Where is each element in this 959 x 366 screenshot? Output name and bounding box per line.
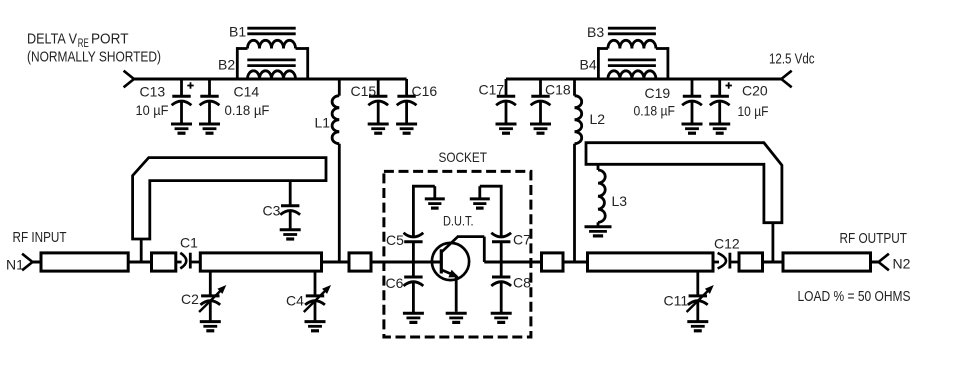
ground C8 [491, 313, 512, 322]
label N2 [893, 256, 911, 272]
ground C11 [687, 322, 708, 331]
label RF INPUT [13, 229, 67, 246]
svg-text:C2: C2 [181, 291, 199, 307]
wire TL2 to box4 (L1 junction) [322, 261, 350, 264]
svg-text:C4: C4 [286, 293, 304, 309]
ground C3 [280, 230, 301, 239]
inductor L3 [598, 164, 627, 225]
capacitor C16 [397, 79, 438, 124]
svg-text:N2: N2 [893, 256, 911, 272]
capacitor C13 10uF [136, 79, 194, 124]
svg-text:C13: C13 [140, 84, 166, 100]
capacitor C17 [479, 79, 516, 124]
transmission line element box7 [739, 253, 763, 271]
wire DUT collector to right [458, 237, 542, 262]
transmission line element box4 [349, 253, 371, 271]
svg-text:L3: L3 [612, 193, 628, 209]
capacitor C7 [491, 232, 531, 263]
svg-text:12.5 Vdc: 12.5 Vdc [769, 51, 815, 68]
label SOCKET [439, 149, 488, 165]
wire top-right bus [506, 78, 781, 81]
capacitor C3 [263, 181, 301, 230]
ground C13 [171, 124, 192, 133]
svg-text:10 µF: 10 µF [738, 103, 769, 119]
inductor L2 [575, 79, 606, 262]
svg-text:RF INPUT: RF INPUT [13, 229, 67, 246]
capacitor C5 [386, 232, 423, 262]
ground socket top-left [425, 199, 445, 208]
socket dashed outline [384, 171, 531, 337]
svg-text:(NORMALLY SHORTED): (NORMALLY SHORTED) [27, 49, 161, 66]
svg-text:C17: C17 [479, 82, 505, 98]
wire TL1 to box2 (junction stub) [128, 261, 151, 264]
svg-text:PORT: PORT [91, 31, 129, 48]
label D.U.T. [443, 213, 474, 229]
ferrite bead B1 [229, 24, 308, 80]
variable capacitor C4 [286, 271, 331, 322]
transmission line element box2 [152, 253, 176, 271]
wire box7 to TL4 (strip junction) [763, 261, 784, 264]
svg-text:10 µF: 10 µF [136, 102, 169, 118]
svg-text:C18: C18 [545, 82, 571, 98]
ground DUT emitter [446, 313, 467, 322]
ground C16 [396, 124, 417, 133]
svg-text:C19: C19 [645, 85, 671, 101]
capacitor C20 10uF [710, 79, 769, 124]
ground C14 [199, 124, 220, 133]
inductor L1 [315, 79, 340, 262]
svg-text:B1: B1 [229, 24, 246, 40]
svg-text:C6: C6 [386, 275, 404, 291]
svg-text:0.18 µF: 0.18 µF [634, 103, 676, 119]
ground C19 [682, 124, 703, 133]
wire C7 to top ground hook right [480, 186, 503, 236]
wire strip-right to main line [772, 223, 775, 262]
svg-text:B2: B2 [218, 57, 235, 73]
ground socket top-right [470, 199, 490, 208]
wire TL4 to N2 [871, 261, 879, 264]
capacitor C8 [491, 262, 531, 313]
ground C2 [200, 322, 221, 331]
ferrite bead B3 [587, 24, 668, 79]
transmission line element box5 [542, 253, 564, 271]
svg-text:C3: C3 [263, 203, 281, 219]
ground L3 [585, 227, 612, 236]
wire top-left bus [134, 78, 407, 81]
svg-text:LOAD % = 50 OHMS: LOAD % = 50 OHMS [798, 288, 911, 305]
port N1 (open arrow) [22, 254, 32, 271]
svg-text:C1: C1 [180, 235, 198, 251]
wire box5 to TL3 (L2 junction) [563, 261, 588, 264]
transmission line TL4 [783, 253, 871, 271]
svg-text:L2: L2 [590, 111, 606, 127]
ferrite bead B2 [218, 57, 296, 80]
svg-text:C8: C8 [513, 275, 531, 291]
ferrite bead B4 [580, 57, 656, 80]
ground C18 [530, 124, 551, 133]
label RF OUTPUT [840, 230, 908, 247]
svg-text:B4: B4 [580, 57, 597, 73]
variable capacitor C11 [664, 271, 714, 322]
svg-text:C12: C12 [714, 236, 740, 252]
svg-text:0.18 µF: 0.18 µF [225, 102, 270, 118]
svg-text:B3: B3 [587, 24, 604, 40]
capacitor C15 [351, 79, 389, 124]
svg-text:N1: N1 [6, 257, 24, 273]
transmission line TL2 [200, 253, 321, 271]
label N1 [6, 257, 24, 273]
ground C4 [305, 322, 326, 331]
port DELTA VRE (open arrow) [124, 71, 134, 88]
microstrip stub left (bent) [133, 158, 326, 239]
svg-text:C7: C7 [513, 232, 531, 248]
svg-text:L1: L1 [315, 115, 331, 131]
ground C20 [709, 124, 730, 133]
svg-text:C14: C14 [234, 84, 260, 100]
label LOAD = 50 OHMS [798, 288, 911, 305]
port N2 (open arrow) [879, 254, 889, 271]
ground C17 [496, 124, 517, 133]
svg-text:C5: C5 [386, 232, 404, 248]
svg-text:DELTA V: DELTA V [27, 31, 77, 48]
capacitor C12 (series) [713, 236, 740, 269]
transmission line TL1 [41, 253, 128, 271]
wire N1 to TL1 [33, 261, 42, 264]
svg-text:SOCKET: SOCKET [439, 149, 488, 165]
ground C6 [403, 313, 424, 322]
capacitor C18 [531, 79, 571, 124]
wire strip-left to main line [140, 239, 143, 262]
label DELTA VRE PORT [27, 31, 161, 66]
ground C15 [368, 124, 389, 133]
wire C5 to top ground hook left [412, 186, 435, 236]
wire box4 to DUT base [371, 261, 441, 264]
svg-text:D.U.T.: D.U.T. [443, 213, 474, 229]
transmission line TL3 [588, 253, 714, 271]
svg-text:C20: C20 [742, 83, 768, 99]
svg-text:C11: C11 [664, 293, 689, 309]
capacitor C6 [386, 262, 424, 313]
capacitor C19 0.18uF [634, 79, 702, 124]
variable capacitor C2 [181, 271, 226, 322]
label 12.5 Vdc [769, 51, 815, 68]
svg-text:C16: C16 [412, 83, 438, 99]
port 12.5 Vdc (open arrow) [781, 71, 791, 88]
transistor D.U.T. (NPN in circle) [432, 236, 469, 312]
svg-text:RF OUTPUT: RF OUTPUT [840, 230, 908, 247]
svg-text:C15: C15 [351, 83, 377, 99]
microstrip stub right (bent) [586, 143, 782, 223]
capacitor C1 (series) [176, 235, 201, 269]
capacitor C14 0.18uF [200, 79, 270, 124]
